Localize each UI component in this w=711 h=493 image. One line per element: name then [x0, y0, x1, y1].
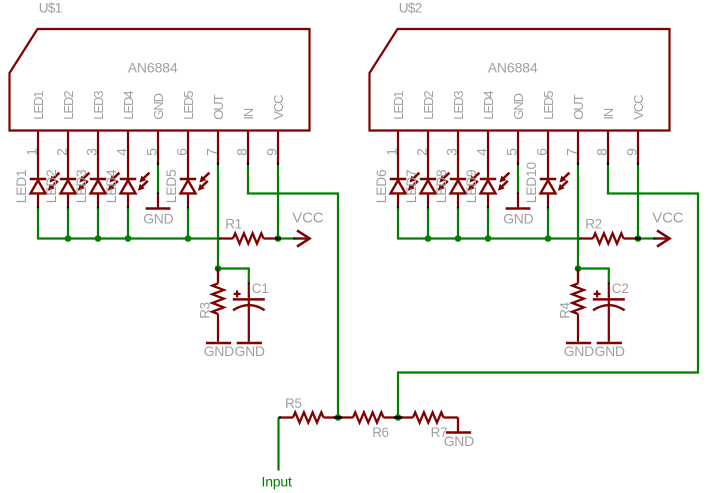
- wire IN net U$2 (pin 8 around right side to R6/R7 junction): [398, 165, 698, 417]
- svg-text:GND: GND: [143, 210, 173, 226]
- wire VCC pin 9 down: [277, 165, 279, 238]
- pin tips at R5/R6 junction: [334, 416, 342, 419]
- svg-text:7: 7: [204, 148, 220, 156]
- svg-text:LED2: LED2: [421, 91, 436, 120]
- junction on anode rail: [125, 235, 132, 242]
- LED LED9: [464, 169, 510, 206]
- svg-text:9: 9: [624, 148, 640, 156]
- wire pin5 to ground: [157, 165, 159, 192]
- svg-text:LED2: LED2: [61, 91, 76, 120]
- pin 3 (LED3) of U$2: [444, 91, 466, 179]
- resistor R5: [281, 396, 338, 423]
- LED LED4: [104, 169, 150, 206]
- pin 7 (OUT) of U$1: [204, 94, 226, 165]
- svg-text:7: 7: [564, 148, 580, 156]
- svg-text:AN6884: AN6884: [128, 60, 178, 76]
- junction on anode rail: [185, 235, 192, 242]
- svg-text:GND: GND: [151, 93, 166, 119]
- wire OUT pin 7 down: [577, 165, 579, 268]
- LED LED6: [374, 169, 420, 206]
- pin tip at rail end: [578, 237, 580, 239]
- svg-text:LED4: LED4: [104, 169, 119, 203]
- wire LED anode to rail: [187, 209, 189, 239]
- resistor R1: [220, 217, 276, 244]
- ground symbol under C2: [594, 343, 624, 359]
- wire LED anode to rail: [427, 209, 429, 239]
- pin tip junction of LED10: [547, 206, 549, 209]
- svg-text:GND: GND: [204, 343, 234, 359]
- ground symbol at R7: [444, 433, 474, 449]
- svg-text:R3: R3: [197, 302, 212, 318]
- wire junction to VCC arrow: [281, 237, 293, 239]
- pin tips at R6/R7 junction: [394, 416, 402, 419]
- wire OUT pin 7 down: [217, 165, 219, 268]
- svg-text:AN6884: AN6884: [488, 60, 538, 76]
- capacitor C1 (polarized): [233, 281, 269, 342]
- svg-text:U$2: U$2: [399, 0, 422, 15]
- svg-text:1: 1: [384, 148, 400, 156]
- wire LED anode to rail: [97, 209, 99, 239]
- pin tip at VCC arrow: [653, 237, 655, 239]
- svg-text:LED1: LED1: [14, 169, 29, 203]
- ground stub: [157, 195, 159, 208]
- svg-text:IN: IN: [601, 108, 616, 120]
- junction at VCC: [275, 235, 282, 242]
- svg-text:5: 5: [144, 148, 160, 156]
- LED LED7: [404, 169, 450, 206]
- junction on anode rail: [65, 235, 72, 242]
- svg-text:R6: R6: [372, 425, 388, 440]
- svg-text:GND: GND: [594, 343, 624, 359]
- wire junction to VCC arrow: [641, 237, 653, 239]
- svg-text:C2: C2: [612, 281, 629, 296]
- svg-text:8: 8: [234, 148, 250, 156]
- pin tip at VCC arrow: [293, 237, 295, 239]
- junction at OUT node: [215, 265, 222, 272]
- LED LED8: [434, 169, 480, 206]
- resistor R3: [197, 270, 224, 342]
- svg-text:VCC: VCC: [292, 210, 323, 227]
- pin tip junction of LED6: [397, 206, 399, 209]
- VCC supply arrow: [652, 210, 683, 247]
- pin tip in junction: [635, 237, 641, 239]
- svg-text:LED1: LED1: [31, 91, 46, 120]
- pin tip junction of LED9: [487, 206, 489, 209]
- resistor R6: [338, 412, 398, 440]
- LED LED3: [74, 169, 120, 206]
- svg-text:1: 1: [24, 148, 40, 156]
- wire LED anode to rail: [67, 209, 69, 239]
- junction at VCC: [635, 235, 642, 242]
- wire LED anode to rail: [487, 209, 489, 239]
- svg-text:U$1: U$1: [39, 0, 62, 15]
- capacitor C2 (polarized): [593, 281, 629, 342]
- ground symbol GND under pin 5 of U$2: [503, 209, 533, 227]
- svg-text:3: 3: [444, 148, 460, 156]
- pin 2 (LED2) of U$1: [54, 91, 76, 179]
- svg-text:VCC: VCC: [271, 95, 286, 120]
- wire VCC pin 9 down: [637, 165, 639, 238]
- svg-text:8: 8: [594, 148, 610, 156]
- pin tip: [517, 192, 519, 195]
- junction on anode rail: [425, 235, 432, 242]
- wire LED anode to rail: [127, 209, 129, 239]
- svg-text:LED3: LED3: [74, 169, 89, 203]
- pin 6 (LED5) of U$1: [174, 91, 196, 179]
- svg-text:IN: IN: [241, 108, 256, 120]
- svg-text:R5: R5: [285, 396, 301, 411]
- svg-text:LED7: LED7: [404, 169, 419, 203]
- VCC supply arrow: [292, 210, 323, 247]
- pin tip at rail end: [218, 237, 220, 239]
- svg-text:6: 6: [174, 148, 190, 156]
- ground symbol under R4: [564, 343, 594, 359]
- pin tip at capacitor top: [248, 282, 250, 285]
- pin 1 (LED1) of U$1: [24, 91, 46, 179]
- ground symbol GND under pin 5 of U$1: [143, 209, 173, 227]
- svg-text:GND: GND: [234, 343, 264, 359]
- resistor R7: [398, 412, 458, 440]
- wire LED anode to rail: [547, 209, 549, 239]
- svg-text:4: 4: [474, 148, 490, 156]
- ground symbol under C1: [234, 343, 264, 359]
- svg-text:LED3: LED3: [91, 91, 106, 120]
- svg-text:LED1: LED1: [391, 91, 406, 120]
- svg-text:LED10: LED10: [524, 161, 539, 203]
- junction R5/R6: [335, 414, 342, 421]
- op-amp/IC U$1 AN6884 outline: [10, 29, 310, 131]
- svg-text:3: 3: [84, 148, 100, 156]
- svg-text:Input: Input: [262, 474, 292, 490]
- resistor R4: [557, 270, 584, 342]
- resistor R2: [580, 217, 636, 244]
- ground symbol under R3: [204, 343, 234, 359]
- pin tip at R5 left: [279, 416, 282, 418]
- svg-text:OUT: OUT: [571, 94, 586, 119]
- wire IN net U$1 (pin 8 to R5/R6 junction): [248, 165, 338, 417]
- svg-text:5: 5: [504, 148, 520, 156]
- svg-text:LED2: LED2: [44, 169, 59, 203]
- svg-text:C1: C1: [252, 281, 269, 296]
- pin 4 (LED4) of U$1: [114, 91, 136, 179]
- pin 5 (GND) of U$1: [144, 93, 166, 165]
- pin 6 (LED5) of U$2: [534, 91, 556, 179]
- LED LED2: [44, 169, 90, 206]
- svg-text:GND: GND: [564, 343, 594, 359]
- junction R6/R7: [395, 414, 402, 421]
- wire pin5 to ground: [517, 165, 519, 192]
- svg-text:GND: GND: [511, 93, 526, 119]
- junction on anode rail: [485, 235, 492, 242]
- pin 8 (IN) of U$1: [234, 108, 256, 165]
- wire LED anode to rail: [457, 209, 459, 239]
- pin tip in junction: [275, 237, 281, 239]
- svg-text:R2: R2: [585, 217, 601, 232]
- pin tip below junction: [577, 267, 579, 271]
- pin 4 (LED4) of U$2: [474, 91, 496, 179]
- LED LED1: [14, 169, 60, 206]
- svg-text:VCC: VCC: [631, 95, 646, 120]
- wire R7 to ground: [457, 418, 459, 433]
- svg-text:OUT: OUT: [211, 94, 226, 119]
- svg-text:GND: GND: [444, 433, 474, 449]
- junction on anode rail: [455, 235, 462, 242]
- pin tip junction of LED1: [37, 206, 39, 209]
- svg-text:LED5: LED5: [181, 91, 196, 120]
- pin 9 (VCC) of U$2: [624, 95, 646, 166]
- wire anode rail: [398, 209, 578, 239]
- wire junction to capacitor: [218, 269, 249, 283]
- svg-text:LED9: LED9: [464, 169, 479, 203]
- junction on anode rail: [95, 235, 102, 242]
- svg-text:VCC: VCC: [652, 210, 683, 227]
- svg-text:9: 9: [264, 148, 280, 156]
- LED LED10: [524, 161, 570, 206]
- pin tip junction of LED3: [97, 206, 99, 209]
- svg-text:GND: GND: [503, 210, 533, 226]
- pin 5 (GND) of U$2: [504, 93, 526, 165]
- pin tip below junction: [217, 267, 219, 271]
- pin 7 (OUT) of U$2: [564, 94, 586, 165]
- ground stub: [517, 195, 519, 208]
- pin 3 (LED3) of U$1: [84, 91, 106, 179]
- svg-text:LED4: LED4: [121, 91, 136, 120]
- LED LED5: [164, 169, 210, 206]
- svg-text:LED5: LED5: [541, 91, 556, 120]
- junction on anode rail: [545, 235, 552, 242]
- pin 9 (VCC) of U$1: [264, 95, 286, 166]
- pin tip junction of LED2: [67, 206, 69, 209]
- junction at OUT node: [575, 265, 582, 272]
- pin tip junction of LED5: [187, 206, 189, 209]
- svg-text:4: 4: [114, 148, 130, 156]
- wire Input: [277, 418, 279, 471]
- svg-text:2: 2: [54, 148, 70, 156]
- pin tip junction of LED8: [457, 206, 459, 209]
- wire anode rail: [38, 209, 218, 239]
- svg-text:R1: R1: [225, 217, 241, 232]
- pin tip at capacitor top: [608, 282, 610, 285]
- pin tip: [157, 192, 159, 195]
- pin 8 (IN) of U$2: [594, 108, 616, 165]
- pin 2 (LED2) of U$2: [414, 91, 436, 179]
- pin 1 (LED1) of U$2: [384, 91, 406, 179]
- svg-text:2: 2: [414, 148, 430, 156]
- svg-text:LED3: LED3: [451, 91, 466, 120]
- svg-text:LED6: LED6: [374, 169, 389, 203]
- op-amp/IC U$2 AN6884 outline: [370, 29, 670, 131]
- svg-text:LED8: LED8: [434, 169, 449, 203]
- svg-text:LED4: LED4: [481, 91, 496, 120]
- svg-text:LED5: LED5: [164, 169, 179, 203]
- svg-text:R4: R4: [557, 301, 572, 318]
- wire junction to capacitor: [578, 269, 609, 283]
- pin tip junction of LED7: [427, 206, 429, 209]
- svg-text:6: 6: [534, 148, 550, 156]
- pin tip junction of LED4: [127, 206, 129, 209]
